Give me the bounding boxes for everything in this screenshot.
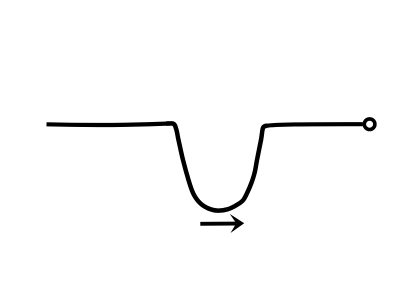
terminal: open-circle node at right end — [364, 119, 375, 130]
wire: right horizontal segment — [265, 124, 363, 126]
wire: U-shaped dip in the line — [166, 123, 267, 210]
wire: left horizontal segment — [47, 124, 171, 125]
arrow: direction indicator below the dip — [200, 214, 244, 233]
